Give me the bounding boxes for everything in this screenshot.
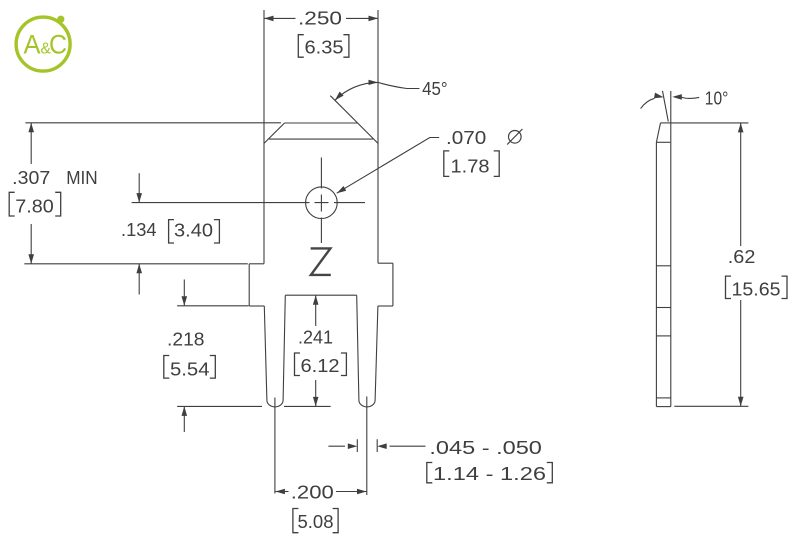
dim .218 lower arrow stem [183, 406, 185, 432]
svg-text:5.08: 5.08 [298, 511, 334, 532]
svg-text:6.12: 6.12 [301, 355, 340, 376]
svg-text:MIN: MIN [66, 167, 98, 188]
dim .307 line top [30, 123, 32, 164]
brackets [1.78] [444, 151, 499, 177]
dim .218 upper arrow stem [183, 280, 185, 306]
side view tip top [661, 122, 671, 124]
ext line shoulder to left (.218) [177, 305, 249, 307]
arrowhead .307 up [28, 123, 34, 133]
dim .134 lower arrow stem [138, 264, 140, 295]
arrowhead .218 up [182, 406, 188, 416]
arrowhead .218 down [182, 296, 188, 306]
dim .241 lower stem [315, 380, 317, 406]
svg-text:.200: .200 [291, 482, 334, 503]
Z marking strokes [311, 248, 331, 275]
front view tab body right edge / .250 extension right [377, 10, 379, 263]
dim .62 stem top [740, 123, 742, 246]
side view division 265 [656, 265, 670, 267]
svg-text:15.65: 15.65 [732, 279, 781, 300]
dim 45 leader to text [378, 82, 419, 88]
svg-text:1.78: 1.78 [451, 156, 490, 177]
svg-text:.307: .307 [12, 167, 50, 188]
dim .200 line left [275, 491, 288, 493]
svg-text:.218: .218 [167, 329, 205, 350]
tab tip top face [285, 122, 358, 124]
leader .070 [337, 138, 440, 194]
brackets [7.80] [9, 192, 61, 216]
right ear outer edge [392, 263, 394, 306]
svg-text:7.80: 7.80 [15, 196, 54, 217]
svg-text:3.40: 3.40 [174, 219, 213, 240]
svg-text:6.35: 6.35 [305, 37, 344, 58]
left ear top [249, 263, 264, 265]
svg-text:45°: 45° [422, 78, 448, 99]
arrowhead .307 down [28, 254, 34, 264]
side view tip chamfer [656, 123, 660, 142]
front view tab body left edge / .250 extension left [263, 10, 265, 264]
arrowhead 45 arc upper [369, 80, 379, 85]
dim .250 line left [264, 17, 296, 19]
arrowhead .241 down [313, 397, 319, 407]
brackets [5.54] [164, 356, 216, 379]
datum symbol diameter [507, 129, 522, 145]
logo A&C [16, 16, 70, 72]
arrowhead 10deg right leader [672, 94, 682, 100]
svg-text:.241: .241 [298, 327, 333, 348]
dim .045 right line [390, 445, 426, 447]
dim .200 line right [336, 491, 367, 493]
svg-text:C: C [49, 30, 67, 60]
left ear bottom shoulder [249, 305, 264, 307]
arrowhead .241 up [313, 295, 319, 305]
side view division 336 [656, 335, 670, 337]
dim .307 line bottom [30, 224, 32, 264]
chamfer back edge line [269, 138, 373, 140]
ext lines right leg width (.045) [357, 439, 377, 452]
brackets [6.12] [295, 353, 347, 376]
side view bottom [656, 406, 670, 408]
ext line ear top to left (.307/.134) [24, 263, 248, 265]
svg-text:.134: .134 [121, 219, 157, 240]
arrowhead .62 up [738, 123, 744, 132]
hole vertical centerline [320, 158, 322, 244]
right leg outline [357, 295, 378, 407]
side view division 307 [656, 307, 670, 309]
arrowhead 45 arc lower [335, 92, 344, 101]
arrowhead .200 right [357, 489, 367, 495]
brackets [3.40] [169, 220, 220, 243]
svg-text:1.14 - 1.26: 1.14 - 1.26 [433, 463, 546, 484]
slot top edge [285, 294, 356, 296]
left leg centerline ext (.200) [274, 398, 276, 494]
svg-text:A: A [24, 30, 41, 60]
svg-text:.070: .070 [446, 127, 486, 148]
brackets [5.08] [293, 509, 338, 533]
dim 45 arc [335, 82, 378, 100]
ext .62 top [671, 122, 749, 124]
right ear bottom shoulder [378, 305, 393, 307]
10deg leader left curve [641, 98, 655, 108]
arrowhead .045 right-point [348, 443, 358, 449]
side view left edge [655, 142, 657, 406]
arrowhead .250 left [264, 16, 274, 22]
arrowhead .200 left [275, 489, 285, 495]
left ear outer edge [248, 264, 250, 306]
tab tip left 45 chamfer [264, 123, 285, 143]
arrowhead 10deg left leader [654, 93, 664, 99]
side view tick at 142 [656, 141, 670, 143]
hole circle [306, 187, 338, 219]
side view right edge [670, 91, 672, 407]
side view division 398 [656, 397, 670, 399]
tab tip right 45 chamfer extended for 45deg dim [330, 96, 378, 144]
svg-text:.62: .62 [728, 246, 756, 267]
arrowhead .070 leader [337, 186, 347, 193]
brackets [1.14 - 1.26] [427, 463, 553, 483]
left leg outline [264, 295, 285, 407]
dim .134 upper arrow stem [138, 173, 140, 202]
arrowhead .134 up [136, 264, 142, 274]
svg-text:5.54: 5.54 [170, 358, 210, 379]
arrowhead .250 right [369, 16, 379, 22]
dim .62 stem bottom [740, 300, 742, 406]
10deg leader right [682, 97, 700, 98]
svg-text:.250: .250 [298, 8, 342, 29]
10deg tilted line [663, 91, 669, 122]
arrowhead .045 left-point [377, 443, 387, 449]
right leg centerline ext (.200) [366, 397, 368, 496]
brackets [6.35] [298, 35, 349, 58]
hole horizontal centerline with .134 dim line [132, 202, 365, 204]
dim .250 line right [346, 17, 378, 19]
dim .045 left line [328, 445, 345, 447]
dim .241 upper stem [315, 295, 317, 326]
ext line top face to left (.307) [25, 122, 281, 124]
brackets [15.65] [726, 276, 788, 298]
svg-text:.045 - .050: .045 - .050 [429, 437, 542, 458]
right ear top [378, 262, 393, 264]
arrowhead .62 down [738, 397, 744, 407]
arrowhead .134 down [136, 193, 142, 203]
ext .62 bottom [674, 405, 748, 407]
svg-text:10°: 10° [705, 87, 729, 108]
ext line leg bottom (.218/.241) [177, 405, 331, 407]
